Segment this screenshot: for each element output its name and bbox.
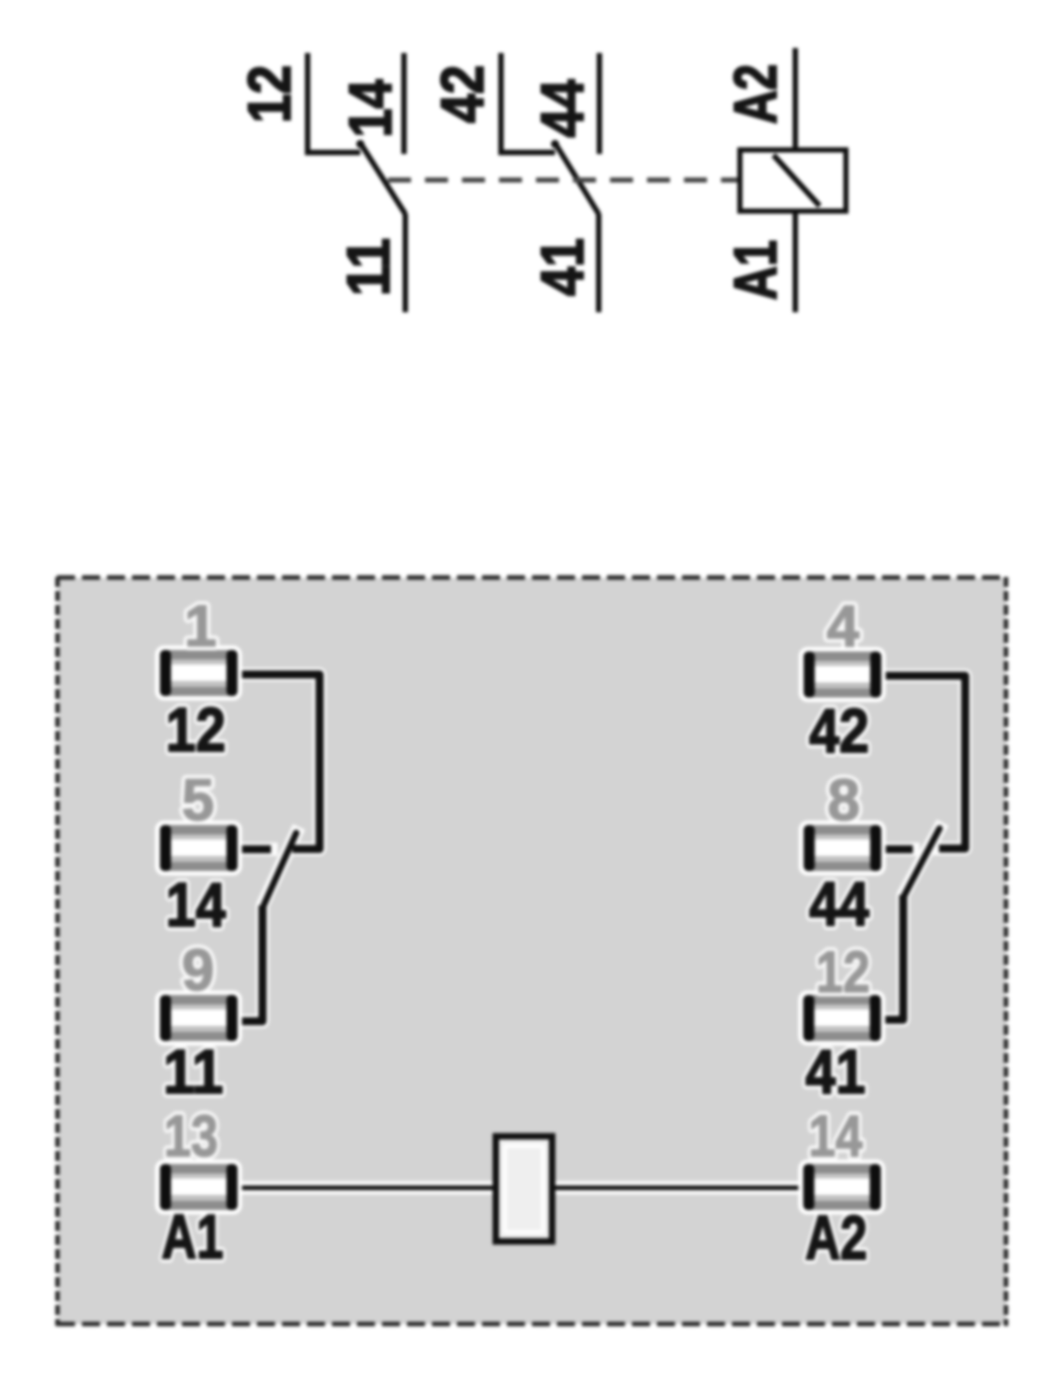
svg-text:44: 44 (809, 870, 869, 939)
svg-text:44: 44 (529, 79, 596, 138)
svg-text:1: 1 (184, 594, 216, 659)
svg-text:A1: A1 (162, 1203, 224, 1272)
svg-text:13: 13 (164, 1104, 218, 1169)
svg-text:12: 12 (166, 696, 226, 765)
svg-text:14: 14 (337, 79, 404, 138)
svg-text:14: 14 (166, 871, 226, 940)
svg-text:4: 4 (827, 594, 859, 659)
svg-text:41: 41 (806, 1038, 866, 1107)
svg-text:12: 12 (816, 940, 870, 1005)
svg-text:42: 42 (429, 65, 496, 123)
svg-text:12: 12 (236, 65, 303, 123)
svg-text:14: 14 (809, 1104, 863, 1169)
svg-text:5: 5 (182, 768, 214, 833)
svg-text:A2: A2 (722, 64, 789, 124)
svg-text:11: 11 (335, 238, 402, 296)
svg-text:9: 9 (182, 938, 214, 1003)
svg-text:11: 11 (163, 1038, 223, 1107)
svg-text:41: 41 (529, 238, 596, 296)
svg-text:A1: A1 (722, 240, 789, 300)
svg-text:A2: A2 (805, 1204, 867, 1273)
svg-text:42: 42 (809, 697, 869, 766)
svg-text:8: 8 (828, 768, 860, 833)
